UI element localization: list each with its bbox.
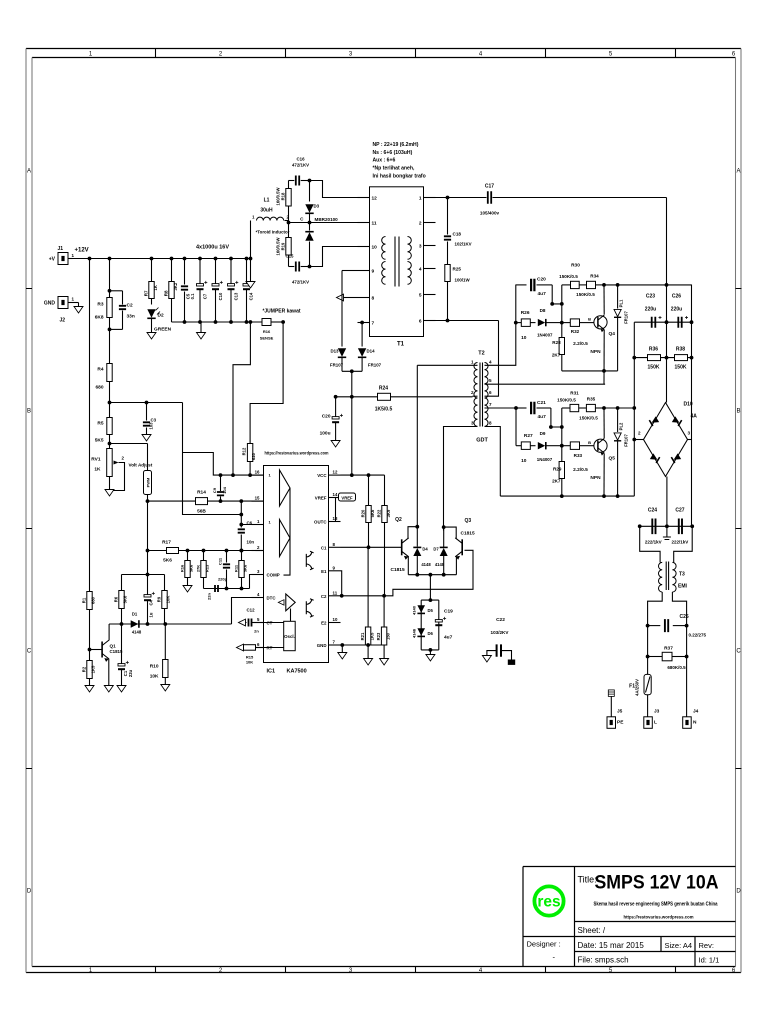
svg-text:https://restovarius.wordpress.: https://restovarius.wordpress.com bbox=[624, 915, 694, 920]
IC1 left pin 5 stub bbox=[252, 622, 264, 624]
svg-text:4u7: 4u7 bbox=[538, 414, 547, 420]
capacitor C20b 4u7 coupling bbox=[516, 284, 527, 286]
capacitor C24 222/1kV bbox=[652, 519, 655, 535]
IC1 output transistor 2 symbol bbox=[306, 599, 313, 617]
resistor R8 bbox=[170, 257, 174, 261]
svg-text:220p: 220p bbox=[218, 577, 228, 582]
junction +12V bus at R3 bbox=[108, 257, 112, 261]
IC1 left pin 1 stub bbox=[252, 524, 264, 526]
resistor R23 bbox=[383, 596, 385, 627]
svg-text:R30: R30 bbox=[571, 263, 580, 269]
svg-text:GND: GND bbox=[317, 643, 327, 648]
diode D5 4148 bbox=[417, 605, 425, 613]
wire AC cap rail bbox=[640, 525, 693, 527]
T1 pin 11 stub bbox=[358, 222, 370, 224]
T1 pin 4 stub right bbox=[424, 268, 436, 270]
svg-text:D2: D2 bbox=[158, 313, 164, 319]
svg-text:R16: R16 bbox=[263, 329, 271, 334]
svg-text:5K5: 5K5 bbox=[95, 438, 104, 444]
svg-text:Designer :: Designer : bbox=[527, 940, 561, 949]
wire IC pin16 net bbox=[183, 453, 264, 476]
IC1 amp output to comp line bbox=[284, 488, 291, 575]
junction L1 output node bbox=[287, 221, 291, 225]
svg-text:R5: R5 bbox=[97, 421, 103, 427]
svg-text:R14: R14 bbox=[197, 490, 206, 496]
svg-text:150K/0.5: 150K/0.5 bbox=[576, 292, 595, 297]
wire C6 column to R14 net bbox=[240, 501, 242, 514]
IC1 left pin 16 stub bbox=[252, 474, 264, 476]
wire cap rail down to T3 bbox=[640, 526, 660, 562]
svg-text:3K2: 3K2 bbox=[173, 282, 178, 290]
svg-text:2: 2 bbox=[419, 221, 422, 227]
capacitor C1 22u bbox=[118, 664, 125, 666]
transformer T1 body bbox=[370, 187, 424, 337]
svg-text:220u: 220u bbox=[671, 307, 682, 313]
border row ticks right bbox=[736, 289, 742, 769]
svg-text:VREF: VREF bbox=[315, 496, 327, 501]
svg-text:D: D bbox=[736, 889, 741, 895]
wire bridge left to mid rail bbox=[634, 439, 643, 441]
resistor R3 6K8 bbox=[109, 259, 111, 298]
svg-text:J1: J1 bbox=[58, 246, 64, 252]
svg-text:R32: R32 bbox=[571, 329, 580, 334]
svg-text:7: 7 bbox=[489, 402, 492, 407]
svg-text:R2: R2 bbox=[82, 666, 87, 672]
capacitor C21 4u7 bbox=[516, 407, 527, 409]
connector J4 N mains bbox=[683, 717, 692, 729]
svg-text:*Np terlihat aneh,: *Np terlihat aneh, bbox=[373, 166, 415, 172]
T1 pin 2 stub right bbox=[424, 222, 436, 224]
wire T2 pin7 snubber rail bbox=[485, 407, 517, 409]
junction R3 C2 bottom bbox=[108, 328, 112, 332]
capacitor C10 1000u bbox=[214, 257, 218, 261]
svg-text:File: smps.sch: File: smps.sch bbox=[578, 956, 629, 965]
wire RV1 node to PWM column bbox=[110, 443, 148, 445]
svg-text:103/2KV: 103/2KV bbox=[491, 630, 510, 635]
svg-text:C20: C20 bbox=[322, 414, 331, 420]
wire Q4 emitter down bbox=[603, 330, 605, 384]
svg-text:R16: R16 bbox=[180, 564, 185, 572]
wire +12V bus bbox=[73, 258, 251, 260]
svg-text:4148: 4148 bbox=[412, 628, 417, 638]
resistor R37 680K/0.5 bbox=[648, 656, 663, 658]
resistor R38 150K bbox=[675, 355, 688, 361]
wire C20b down to stub row bbox=[552, 285, 562, 304]
svg-text:10: 10 bbox=[521, 335, 527, 341]
svg-text:R1: R1 bbox=[82, 597, 87, 603]
ground under D5 D6 loop bbox=[429, 650, 431, 655]
svg-text:4148: 4148 bbox=[421, 562, 431, 567]
resistor R32 2.2/0.5 bbox=[562, 322, 571, 324]
IC1 KA7500 body bbox=[264, 466, 329, 663]
wire T2 pin3 to D7 bbox=[444, 427, 478, 531]
svg-text:J4: J4 bbox=[693, 709, 699, 715]
transistor Q3 C1815 bbox=[461, 539, 463, 555]
IC1 CT RT internal stubs bbox=[264, 623, 284, 648]
svg-text:22n: 22n bbox=[207, 593, 212, 600]
capacitor C27 222/1kV bbox=[679, 519, 682, 535]
logo restovarius green ring bbox=[534, 886, 563, 915]
wire bus to L1 bbox=[249, 257, 253, 261]
svg-text:R20: R20 bbox=[361, 509, 366, 517]
svg-text:R26: R26 bbox=[521, 310, 530, 316]
diode D8 1N4007 bbox=[530, 322, 535, 324]
wire Q3 emitter down bbox=[455, 557, 457, 575]
svg-text:3: 3 bbox=[419, 244, 422, 250]
wire Q4 collector bbox=[603, 285, 605, 315]
svg-text:B: B bbox=[736, 409, 740, 415]
svg-text:5K6: 5K6 bbox=[370, 509, 375, 517]
svg-text:9: 9 bbox=[372, 269, 375, 275]
svg-text:27K: 27K bbox=[196, 565, 201, 572]
diode D6 4148 bbox=[417, 628, 425, 636]
wire R31 rail right end to output vertical bbox=[604, 407, 634, 409]
capacitor C22 103/2KV Y-cap bbox=[497, 644, 501, 656]
capacitor C25 0.22/275 bbox=[648, 625, 661, 627]
svg-text:D1: D1 bbox=[132, 612, 138, 617]
junction top rail to HV bbox=[616, 283, 620, 287]
svg-text:0.1: 0.1 bbox=[190, 293, 195, 299]
wire comp to IC pin3 bbox=[250, 575, 264, 589]
resistor R5 5K5 bbox=[109, 403, 111, 418]
T1 pin 12 stub bbox=[358, 197, 370, 199]
wire snubber loop left bbox=[515, 408, 517, 446]
svg-text:GREEN: GREEN bbox=[154, 327, 172, 333]
wire sense line down to R12 divider bbox=[250, 322, 283, 444]
svg-text:B: B bbox=[27, 409, 31, 415]
svg-text:https://restovarius.wordpress.: https://restovarius.wordpress.com bbox=[265, 451, 329, 456]
resistor R28 2K7 bbox=[559, 338, 564, 355]
resistor R7 bbox=[150, 257, 154, 261]
ground under C20 bbox=[331, 441, 340, 448]
wire to fuse bbox=[647, 657, 649, 675]
svg-text:6: 6 bbox=[489, 390, 492, 395]
T1 pin 10 stub bbox=[358, 246, 370, 248]
svg-text:L1: L1 bbox=[264, 198, 270, 204]
resistor R6 5K6 bbox=[121, 575, 123, 591]
svg-text:R28: R28 bbox=[552, 340, 561, 345]
svg-text:150K: 150K bbox=[675, 365, 687, 371]
diode D3 MBR20100 top half bbox=[309, 181, 311, 202]
junction rail R35 PL2 bbox=[616, 406, 620, 410]
junction C18 branch bbox=[446, 196, 450, 200]
capacitor C6 10n bbox=[240, 525, 242, 528]
IC1 right pin 11 stub bbox=[329, 595, 341, 597]
junction comp rail bbox=[225, 549, 229, 553]
svg-text:D7: D7 bbox=[433, 547, 439, 552]
junction comp rail bbox=[240, 549, 244, 553]
svg-text:8: 8 bbox=[489, 421, 492, 426]
svg-text:R21: R21 bbox=[360, 632, 365, 640]
resistor R33 2.2/0.5 bbox=[562, 445, 571, 447]
svg-text:GDT: GDT bbox=[476, 438, 488, 444]
wire PWM node to R14 bbox=[148, 500, 196, 502]
junction comp rail bbox=[186, 549, 190, 553]
wire divider node right bbox=[110, 402, 183, 404]
svg-text:680K/0.5: 680K/0.5 bbox=[667, 665, 686, 670]
resistor R27 10 bbox=[516, 445, 521, 447]
svg-text:150K/0.5: 150K/0.5 bbox=[579, 416, 598, 421]
svg-text:1: 1 bbox=[471, 359, 474, 364]
svg-text:150K/0.5: 150K/0.5 bbox=[557, 398, 576, 403]
wire feedback node down to VCC rail bbox=[351, 397, 353, 476]
wire Q5 emitter down bbox=[603, 454, 605, 497]
svg-text:1K5: 1K5 bbox=[370, 632, 375, 640]
wire T2 pin8 down bbox=[485, 427, 501, 497]
wire T3 bottom leads bbox=[648, 592, 663, 626]
svg-text:R13: R13 bbox=[205, 564, 210, 572]
wire rail to IC pin2 bbox=[256, 550, 264, 552]
svg-text:*JUMPER kawat: *JUMPER kawat bbox=[262, 309, 300, 315]
title block outline bbox=[523, 867, 736, 967]
wire L1 node to T1 pin 11 bbox=[289, 222, 358, 224]
wire VCC rail bbox=[341, 474, 385, 476]
net label PWM bbox=[144, 471, 152, 495]
resistor R17 5K6 bbox=[167, 548, 179, 554]
svg-text:3: 3 bbox=[688, 431, 691, 436]
resistor R2 1K5 bbox=[87, 661, 92, 679]
svg-text:0.22/275: 0.22/275 bbox=[689, 633, 707, 638]
junction mid rail HV bbox=[665, 320, 669, 324]
resistor R25 100/1W bbox=[445, 265, 450, 282]
svg-text:J2: J2 bbox=[60, 318, 66, 324]
wire W3 divider to comp network bbox=[183, 403, 242, 515]
svg-text:105/400v: 105/400v bbox=[480, 211, 500, 216]
resistor R22 bbox=[384, 475, 386, 505]
svg-text:160/0.5W: 160/0.5W bbox=[276, 237, 281, 255]
svg-text:RV1: RV1 bbox=[91, 457, 101, 463]
svg-text:160/0.5W: 160/0.5W bbox=[276, 187, 281, 205]
svg-text:R22: R22 bbox=[377, 509, 382, 517]
svg-text:+12V: +12V bbox=[75, 248, 89, 254]
svg-text:C12: C12 bbox=[246, 608, 255, 613]
IC1 right pin 8 stub bbox=[329, 546, 341, 548]
transistor Q2 C1815 bbox=[401, 539, 403, 555]
svg-text:SMPS 12V 10A: SMPS 12V 10A bbox=[595, 872, 719, 894]
svg-text:B: B bbox=[588, 440, 591, 445]
wire pin6 net down to T2 pin 6 bbox=[485, 321, 499, 397]
T1 pin 7 stub bbox=[358, 322, 370, 324]
wire Q2 collector bbox=[408, 527, 417, 539]
capacitor C26 220u bbox=[678, 317, 681, 328]
svg-text:C13: C13 bbox=[234, 292, 239, 300]
svg-text:PL1: PL1 bbox=[619, 299, 624, 307]
svg-text:C9: C9 bbox=[212, 487, 217, 493]
wire T1 pin6 net bbox=[436, 320, 499, 322]
svg-text:KA7500: KA7500 bbox=[287, 669, 307, 675]
VREF net label bbox=[336, 497, 339, 499]
wire down to C6 and pin1 bbox=[240, 515, 242, 525]
svg-text:N: N bbox=[693, 720, 697, 726]
svg-text:C: C bbox=[736, 649, 741, 655]
svg-text:EMI: EMI bbox=[678, 584, 688, 590]
capacitor C2 33n bbox=[110, 290, 123, 292]
svg-text:Aux : 6+6: Aux : 6+6 bbox=[373, 158, 396, 164]
svg-text:102/1KV: 102/1KV bbox=[455, 242, 472, 247]
capacitor C7 1000u bbox=[198, 257, 202, 261]
svg-text:10: 10 bbox=[521, 458, 527, 464]
svg-text:4u7: 4u7 bbox=[538, 291, 547, 297]
svg-text:D14: D14 bbox=[367, 349, 376, 354]
T1 secondary winding bbox=[408, 237, 412, 260]
svg-text:C15: C15 bbox=[285, 254, 294, 259]
svg-text:T1: T1 bbox=[397, 342, 405, 348]
wire C2 pin11 to Q3 base with jog bbox=[341, 550, 474, 596]
junction PWM node bbox=[146, 499, 150, 503]
svg-text:RT: RT bbox=[267, 646, 273, 651]
svg-text:R38: R38 bbox=[676, 347, 685, 353]
ground under R10 bbox=[161, 685, 170, 692]
wire HV rail down right side bbox=[666, 198, 668, 403]
transistor Q5 NPN bbox=[594, 439, 607, 452]
svg-text:Rev:: Rev: bbox=[699, 941, 714, 950]
svg-text:D6: D6 bbox=[428, 631, 434, 636]
svg-text:FR107: FR107 bbox=[623, 311, 628, 324]
capacitor C15 472/1KV snubber bbox=[289, 266, 295, 268]
resistor R35 150K/0.5 bbox=[579, 407, 587, 409]
svg-text:C6: C6 bbox=[247, 521, 253, 526]
wire fuse to J3 bbox=[647, 695, 649, 717]
svg-text:Date: 15 mar 2015: Date: 15 mar 2015 bbox=[578, 941, 645, 950]
svg-text:J5: J5 bbox=[617, 709, 623, 715]
border column ticks top bbox=[156, 49, 676, 58]
T1 primary winding bbox=[382, 237, 386, 260]
svg-text:D: D bbox=[27, 889, 32, 895]
svg-text:2K7: 2K7 bbox=[552, 479, 561, 484]
ground on lower bus bbox=[200, 322, 202, 333]
wire top rail to output rail bbox=[604, 284, 692, 286]
svg-text:6K8: 6K8 bbox=[95, 315, 104, 321]
svg-text:16: 16 bbox=[255, 470, 260, 475]
svg-text:J3: J3 bbox=[654, 709, 660, 715]
border column ticks bottom bbox=[156, 967, 676, 973]
svg-text:7: 7 bbox=[372, 321, 375, 327]
resistor R1 680 bbox=[87, 592, 92, 610]
wire T2 pin1 bbox=[417, 364, 477, 366]
svg-text:Volt Adjust: Volt Adjust bbox=[129, 463, 153, 468]
svg-text:103: 103 bbox=[149, 422, 154, 430]
svg-text:Skema hasil reverse engineerin: Skema hasil reverse engineering SMPS gen… bbox=[594, 902, 718, 908]
center tap chassis stub bbox=[666, 526, 668, 537]
svg-text:10n: 10n bbox=[247, 540, 255, 545]
svg-text:1: 1 bbox=[419, 196, 422, 202]
svg-text:1K5/0.5: 1K5/0.5 bbox=[375, 407, 393, 413]
svg-text:5K6: 5K6 bbox=[189, 564, 194, 572]
svg-text:NP : 22+19 (6.2mH): NP : 22+19 (6.2mH) bbox=[373, 142, 419, 148]
svg-text:SENSE: SENSE bbox=[260, 336, 274, 341]
svg-text:56B: 56B bbox=[197, 509, 206, 515]
junction divider node bbox=[108, 401, 112, 405]
inductor L1 30uH bbox=[257, 217, 284, 220]
ground under C3 bbox=[142, 435, 151, 442]
svg-text:C4: C4 bbox=[149, 599, 154, 605]
resistor R12 620 bbox=[247, 444, 252, 462]
T1 pin 9 stub bbox=[358, 270, 370, 272]
svg-text:R29: R29 bbox=[553, 467, 562, 472]
wire D5 D6 C19 loop bbox=[421, 600, 439, 650]
capacitor C8 22n in comp rail bbox=[215, 585, 218, 592]
IC1 right pin 14 stub bbox=[329, 497, 341, 499]
ground under D2 bbox=[147, 333, 156, 340]
resistor R16 SENSE jumper bbox=[262, 319, 271, 326]
junction Q1 base bbox=[88, 648, 92, 652]
svg-text:4140: 4140 bbox=[412, 605, 417, 615]
capacitor C4 1u bbox=[147, 575, 149, 595]
resistor R29 2K7 bbox=[559, 462, 564, 479]
wire top rail to T1 pin 12 bbox=[310, 181, 358, 198]
svg-text:R34: R34 bbox=[590, 274, 599, 279]
svg-text:4A: 4A bbox=[691, 414, 698, 420]
svg-text:10K: 10K bbox=[166, 596, 171, 604]
svg-text:A: A bbox=[27, 169, 31, 175]
ground at J2 bbox=[78, 303, 80, 307]
svg-text:Oscl.: Oscl. bbox=[284, 634, 295, 639]
svg-text:11: 11 bbox=[333, 590, 338, 595]
T1 core bbox=[395, 237, 399, 287]
wire E1 pin9 to C2 row bbox=[341, 571, 342, 596]
svg-text:C1: C1 bbox=[321, 545, 327, 550]
ground under R16b bbox=[183, 586, 192, 593]
wire bridge right bbox=[688, 439, 692, 441]
svg-text:5: 5 bbox=[489, 378, 492, 383]
junction comp rail bbox=[202, 549, 206, 553]
svg-text:C23: C23 bbox=[646, 294, 655, 300]
ground under C22 left bbox=[482, 656, 491, 663]
svg-text:D13: D13 bbox=[330, 349, 339, 354]
diode PL2 FR107 bbox=[617, 408, 619, 432]
svg-text:1K5: 1K5 bbox=[91, 665, 96, 673]
svg-text:10K: 10K bbox=[150, 674, 159, 680]
svg-text:R27: R27 bbox=[524, 433, 533, 439]
wire T2 pin5 to Q4 emitter bbox=[485, 383, 606, 385]
resistor R11 5K6 bbox=[241, 551, 243, 561]
wire R14 to IC pin15 bbox=[208, 500, 264, 502]
svg-text:E2: E2 bbox=[321, 621, 327, 626]
svg-text:IC1: IC1 bbox=[267, 669, 276, 675]
svg-text:150K: 150K bbox=[648, 365, 660, 371]
svg-text:MBR20100: MBR20100 bbox=[315, 217, 339, 222]
svg-text:C20: C20 bbox=[537, 277, 546, 283]
resistor R13 27K bbox=[203, 551, 205, 561]
wire left vertical Q4 cluster bbox=[561, 285, 563, 338]
diode D4 4148 bbox=[413, 548, 421, 556]
wire R37 to J4 bbox=[686, 657, 688, 717]
IC1 left pin 4 stub bbox=[252, 597, 264, 599]
wire Q5 collector bbox=[603, 408, 605, 438]
capacitor C13 1000u bbox=[229, 257, 233, 261]
svg-text:R24: R24 bbox=[379, 386, 388, 392]
svg-text:COMP: COMP bbox=[267, 573, 280, 578]
svg-text:R37: R37 bbox=[664, 646, 673, 652]
T1 pin 5 stub right bbox=[424, 294, 436, 296]
ground under R23 bbox=[383, 645, 385, 659]
svg-text:2: 2 bbox=[471, 390, 474, 395]
wire C1 pin8 to Q2 base bbox=[341, 546, 402, 548]
svg-text:OUTC: OUTC bbox=[314, 520, 327, 525]
ground under R21 bbox=[367, 645, 369, 659]
wire X-cap to R37 bbox=[647, 626, 649, 657]
wire Q2 emitter down bbox=[407, 557, 409, 575]
svg-text:5K6: 5K6 bbox=[123, 595, 128, 603]
capacitor C12 2n at CT bbox=[239, 619, 246, 626]
svg-text:10K: 10K bbox=[246, 660, 253, 665]
border row ticks left bbox=[26, 289, 32, 769]
svg-text:C3: C3 bbox=[151, 418, 157, 423]
svg-text:2K7: 2K7 bbox=[552, 353, 561, 358]
svg-text:CT: CT bbox=[267, 621, 273, 626]
svg-text:12: 12 bbox=[333, 470, 338, 475]
svg-text:R31: R31 bbox=[570, 391, 579, 396]
